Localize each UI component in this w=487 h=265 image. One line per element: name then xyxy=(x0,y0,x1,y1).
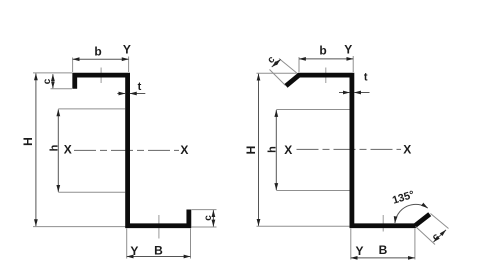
dim B (left): left extension line xyxy=(126,228,128,258)
dim c top-left (left): bottom extension line xyxy=(51,88,73,90)
dim t (right): left arrow xyxy=(339,92,350,94)
dim c top-left (left): vertical double arrow xyxy=(52,74,54,88)
svg-text:H: H xyxy=(21,137,35,146)
dim c top-left angled (right): dimension line with arrows xyxy=(272,59,281,67)
svg-text:B: B xyxy=(379,243,388,257)
tick mark centre of top flange (left) xyxy=(100,68,102,84)
dim c bottom-right (left): bottom extension line xyxy=(191,226,216,228)
svg-text:Y: Y xyxy=(130,244,138,258)
dim t (right): right arrow with tail xyxy=(354,92,369,94)
dim b (right): right extension line (Y axis mark) xyxy=(352,56,354,72)
tick mark centre of bottom flange (right) xyxy=(382,215,384,232)
dim c bottom-right angled (right): dimension line with arrows xyxy=(434,230,447,242)
svg-text:h: h xyxy=(267,146,279,153)
dim c top-left angled (right): extension line from lip upper end xyxy=(279,59,298,75)
angle arc 135 degrees (right) xyxy=(395,204,428,223)
dim t (left): right arrow with tail xyxy=(130,93,145,95)
dim h (left): top extension line xyxy=(58,108,125,110)
svg-text:X: X xyxy=(403,143,411,157)
dim H (right): bottom extension line xyxy=(257,225,351,227)
svg-text:X: X xyxy=(64,143,72,157)
centerline X-X (left) xyxy=(74,149,179,151)
dim t (left): left arrow xyxy=(117,93,125,95)
dim B (left): right extension line xyxy=(190,228,192,258)
svg-text:t: t xyxy=(138,81,142,93)
svg-text:H: H xyxy=(244,146,258,155)
svg-text:h: h xyxy=(49,144,61,151)
dim b (right): dimension line with arrows xyxy=(299,58,353,60)
dim B (right): left extension line xyxy=(350,228,352,259)
svg-text:b: b xyxy=(94,44,101,58)
dim B (right): right extension line xyxy=(414,228,416,259)
profile outline (left Z-section) xyxy=(75,75,189,226)
dim B (right): dimension line with arrows xyxy=(351,257,415,259)
dim c bottom-right (left): top extension line xyxy=(191,209,216,211)
svg-text:Y: Y xyxy=(123,42,131,56)
svg-text:t: t xyxy=(364,71,368,83)
centerline X-X (right) xyxy=(297,148,402,150)
svg-text:b: b xyxy=(319,43,326,57)
dim b (left): dimension line with arrows xyxy=(73,58,129,60)
dim h (right): bottom extension line xyxy=(276,190,349,192)
dim c bottom-right (left): vertical double arrow xyxy=(212,210,214,226)
tick mark centre of bottom flange (left) xyxy=(158,215,160,239)
dim c top-left angled (right): extension line from lip lower end xyxy=(270,70,286,86)
dim b (left): left extension line xyxy=(72,58,74,73)
dim h (left): vertical dimension line with arrows xyxy=(57,109,59,191)
tick mark centre of top flange (right) xyxy=(325,68,327,84)
profile outline (right Z-section with 135-degree lips) xyxy=(286,75,430,226)
svg-text:X: X xyxy=(180,143,188,157)
dim H (left): top extension line xyxy=(33,72,72,74)
svg-text:Y: Y xyxy=(355,244,363,258)
svg-text:X: X xyxy=(284,143,292,157)
dim h (left): bottom extension line xyxy=(58,191,125,193)
svg-text:Y: Y xyxy=(344,43,352,57)
svg-text:B: B xyxy=(154,244,163,258)
dim H (left): bottom extension line xyxy=(33,226,127,228)
svg-text:c: c xyxy=(203,215,214,221)
dim H (right): top extension line xyxy=(257,72,297,74)
dim H (left): vertical dimension line with arrows xyxy=(35,73,37,226)
dim B (left): dimension line with arrows xyxy=(127,256,191,258)
dim h (right): vertical dimension line with arrows xyxy=(275,110,277,190)
dim h (right): top extension line xyxy=(276,109,349,111)
dim c bottom-right angled (right): extension line from lip upper end xyxy=(431,214,449,229)
dim c bottom-right angled (right): extension line from lip lower end (vertex) xyxy=(416,227,436,245)
svg-text:c: c xyxy=(42,78,53,84)
dim H (right): vertical dimension line with arrows xyxy=(258,74,260,226)
dim b (left): right extension line (Y axis mark) xyxy=(128,57,130,73)
dim b (right): left extension line xyxy=(298,57,300,72)
